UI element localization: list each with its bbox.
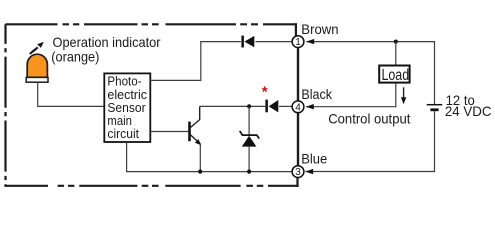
sensor housing dash-dot border: top xyxy=(6,23,297,25)
zener diode ZD1 cathode bar with bent ends xyxy=(240,131,260,139)
svg-text:Black: Black xyxy=(301,86,332,102)
svg-text:4: 4 xyxy=(295,102,301,113)
wire: collector rail to diode D2 xyxy=(200,105,266,107)
diode D2 triangle xyxy=(269,100,279,112)
terminal 3 circle xyxy=(292,166,304,178)
battery negative plate (short, thick) xyxy=(430,108,438,111)
junction: emitter / blue rail xyxy=(198,170,202,174)
svg-text:circuit: circuit xyxy=(107,126,139,141)
diode D1 (reverse-polarity protection) cathode bar xyxy=(241,36,244,48)
arrowhead into terminal 1 xyxy=(306,39,314,44)
svg-text:1: 1 xyxy=(295,37,301,48)
arrowhead into terminal 4 xyxy=(306,104,314,109)
transistor Q1 emitter arrowhead xyxy=(195,139,201,145)
wire: box top-right up to brown rail xyxy=(150,42,241,81)
transistor Q1 collector xyxy=(190,106,199,127)
svg-text:Brown: Brown xyxy=(301,21,338,37)
junction: collector rail / zener top xyxy=(247,104,251,108)
junction: zener / blue rail xyxy=(247,170,251,174)
load box xyxy=(379,66,409,83)
wire: diode D2 to terminal 4 xyxy=(279,105,292,107)
wire: emitter down to blue rail xyxy=(199,145,201,172)
zener diode ZD1 triangle xyxy=(242,136,257,147)
sensor housing border: left xyxy=(4,24,6,187)
svg-text:3: 3 xyxy=(295,167,301,178)
transistor Q1 emitter xyxy=(190,135,200,144)
terminal 4 circle xyxy=(292,101,304,113)
sensor housing border: top-right corner stub xyxy=(295,23,297,36)
photoelectric sensor main circuit box xyxy=(104,73,150,142)
thick lead: terminal 1 to terminal 4 xyxy=(297,47,299,101)
wire: brown rail down to battery + xyxy=(434,41,436,104)
transistor Q1 base bar xyxy=(188,122,191,142)
wire: brown rail right side xyxy=(306,41,434,43)
wire: diode D1 to terminal 1 xyxy=(256,41,293,43)
diode D2 (output) cathode bar xyxy=(265,100,268,113)
wire: load bottom to terminal 4 xyxy=(306,84,396,107)
wire: blue rail (bottom) from box bottom to terminal 3 xyxy=(127,143,293,172)
svg-text:*: * xyxy=(262,84,268,101)
svg-text:24 VDC: 24 VDC xyxy=(445,103,492,119)
terminal 1 circle xyxy=(292,36,304,48)
wire: LED cathode down and right to main circuit box xyxy=(38,82,104,106)
sensor housing border: bottom xyxy=(6,185,299,187)
LED light-emission arrow xyxy=(30,47,38,54)
arrowhead into terminal 3 xyxy=(305,169,313,174)
wire: base of transistor from box xyxy=(150,131,188,133)
svg-text:(orange): (orange) xyxy=(51,48,99,64)
current direction arrow beside load xyxy=(403,87,405,99)
svg-text:Control output: Control output xyxy=(328,111,410,127)
thick lead: terminal 4 to terminal 3 xyxy=(297,113,299,167)
wire: battery - down and left to terminal 3 xyxy=(305,111,434,171)
LED indicator lamp base xyxy=(26,77,48,82)
diode D1 triangle xyxy=(244,36,254,47)
wire: junction down to load xyxy=(395,42,397,66)
battery positive plate (long) xyxy=(427,104,443,106)
wire: zener bottom lead to blue rail xyxy=(248,147,250,172)
svg-text:Blue: Blue xyxy=(301,151,327,167)
LED indicator lamp body (orange dome) xyxy=(27,54,47,77)
sensor housing border: bottom-right corner stub xyxy=(296,177,298,187)
wire: zener top lead xyxy=(248,106,250,135)
svg-text:Load: Load xyxy=(382,67,410,84)
junction: load branch on brown rail xyxy=(394,40,398,44)
